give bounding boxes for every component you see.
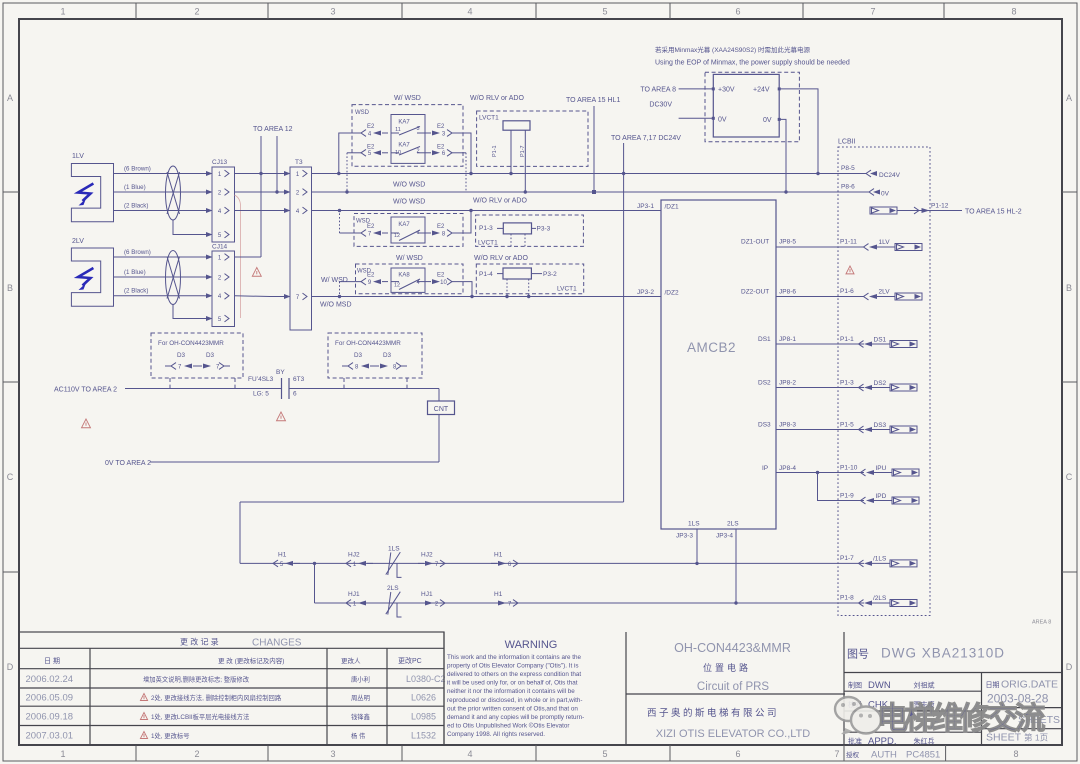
svg-text:P1-7: P1-7 [520,145,526,157]
svg-text:D3: D3 [354,352,363,359]
svg-text:P1-3: P1-3 [840,380,854,387]
svg-text:CJ14: CJ14 [212,244,228,251]
svg-text:P3-3: P3-3 [537,226,551,233]
IC AMCB2 box [661,200,776,529]
border zone ticks left [3,191,19,193]
relay group WSD (KA8) dashed box [356,264,464,294]
svg-text:5: 5 [602,7,607,17]
power supply dashed box [705,72,799,142]
svg-text:WARNING: WARNING [505,639,558,651]
sign rows lines [844,690,982,692]
lead P1-1 to row1 [510,130,512,173]
svg-text:P3-2: P3-2 [543,271,557,278]
leads LVCT1 bottom to row7 [506,279,508,297]
svg-text:DS1: DS1 [874,336,887,343]
svg-text:delivered to others on the exp: delivered to others on the express condi… [447,671,581,678]
svg-text:property of Otis Elevator Com: property of Otis Elevator Company ("Otis… [447,663,579,670]
svg-text:0V: 0V [718,117,727,124]
svg-text:D: D [7,662,14,672]
svg-text:刘祖斌: 刘祖斌 [914,681,935,690]
lead P1-7 to row2 [524,130,526,192]
svg-text:P8-5: P8-5 [841,165,855,172]
wire CNT to 0V return [438,415,440,463]
pin P1-12 output to HL-2 [870,207,897,214]
svg-text:6: 6 [293,391,297,398]
svg-text:DWN: DWN [868,680,891,691]
wire 1LV black [114,210,205,212]
svg-text:CHANGES: CHANGES [252,638,302,649]
svg-text:KA7: KA7 [398,143,410,149]
svg-text:0V: 0V [881,191,890,198]
svg-text:C: C [7,472,14,482]
svg-text:CNT: CNT [434,406,449,413]
svg-text:AREA 8: AREA 8 [1032,620,1051,626]
svg-text:Circuit of PRS: Circuit of PRS [697,681,770,693]
svg-text:TO AREA 15 HL-2: TO AREA 15 HL-2 [965,209,1022,216]
svg-text:P1-1: P1-1 [492,145,498,157]
svg-text:AC110V TO AREA 2: AC110V TO AREA 2 [54,387,117,394]
revision mark wire (pink) [235,195,241,318]
svg-text:IPU: IPU [876,465,887,472]
svg-text:PC4851: PC4851 [906,750,940,761]
svg-text:10: 10 [440,280,447,286]
svg-text:P1-5: P1-5 [840,422,854,429]
svg-text:For OH-CON4423MMR: For OH-CON4423MMR [158,340,224,347]
svg-text:L0985: L0985 [411,712,436,722]
svg-text:6: 6 [735,7,740,17]
svg-text:W/ WSD: W/ WSD [396,255,423,262]
svg-text:CJ13: CJ13 [212,159,228,166]
wire bus row1 DC24V [312,173,867,175]
power supply box [713,74,779,137]
border zone ticks top [135,3,137,19]
wire KA8 out to row7 [452,282,472,297]
lightning bolt 1LV [78,184,93,202]
twisted pair 1LV [166,166,181,220]
wire E2-6 stub to row2 [452,152,466,154]
svg-text:JP3-4: JP3-4 [716,533,733,540]
svg-text:BY: BY [276,369,285,376]
lightning bolt 2LV [78,268,93,286]
LVCT1 dashed box mid [476,215,584,246]
note box For OH-CON4423MMR right [328,333,422,378]
svg-text:0V: 0V [763,117,772,124]
svg-text:IPD: IPD [876,493,887,500]
relay KA8 contact box [391,268,425,292]
svg-text:2006.02.24: 2006.02.24 [26,674,74,685]
svg-text:+24V: +24V [753,87,770,94]
svg-text:L0626: L0626 [411,693,436,703]
svg-text:授权: 授权 [846,750,860,759]
watermark wechat logo [835,697,881,734]
svg-text:Using the EOP of Minmax, the p: Using the EOP of Minmax, the power suppl… [655,60,850,67]
svg-text:2LS: 2LS [727,521,739,528]
svg-text:DS2: DS2 [758,380,771,387]
wire CJ13-2 to T3-2 [235,191,284,193]
svg-text:(2 Black): (2 Black) [124,288,148,295]
jumper symbol D3 left [171,363,176,370]
svg-text:6: 6 [735,749,740,759]
wire IP branch to IPD [818,473,865,501]
svg-text:2: 2 [194,7,199,17]
wire to +30V [679,88,714,90]
svg-text:OH-CON4423&MMR: OH-CON4423&MMR [674,641,791,655]
svg-text:P1-9: P1-9 [840,493,854,500]
svg-text:P1-10: P1-10 [840,465,858,472]
svg-text:XIZI OTIS ELEVATOR CO.,LTD: XIZI OTIS ELEVATOR CO.,LTD [656,728,810,740]
svg-text:AUTH: AUTH [871,750,897,761]
svg-text:TO AREA 15 HL1: TO AREA 15 HL1 [566,97,620,104]
svg-text:KA7: KA7 [398,120,410,126]
svg-text:E2: E2 [437,145,445,151]
svg-text:4: 4 [467,749,472,759]
svg-text:DC24V: DC24V [879,172,901,179]
svg-text:JP3-3: JP3-3 [676,533,693,540]
svg-text:P1-1: P1-1 [840,336,854,343]
svg-text:reproduced or disclosed, in wh: reproduced or disclosed, in whole or in … [447,697,582,704]
relay KA7b contact box [391,217,425,243]
svg-text:JP8-2: JP8-2 [779,380,796,387]
changes table outline [19,632,444,745]
svg-text:周丛明: 周丛明 [351,693,370,702]
svg-text:日 期: 日 期 [44,657,60,665]
svg-text:E2: E2 [437,124,445,130]
svg-text:HJ1: HJ1 [348,591,360,598]
wire KA7 out to row1 [452,133,471,174]
svg-text:(1 Blue): (1 Blue) [124,269,146,276]
wire 2LV blue [114,276,205,278]
svg-text:12: 12 [394,283,400,289]
wire TO AREA 15 HL1 drop [593,106,595,192]
wire CJ13-4 to T3-4 [235,210,284,212]
wire +24V to row1 [779,89,818,174]
svg-text:W/O RLV or ADO: W/O RLV or ADO [470,95,524,102]
warning triangle left [82,419,91,428]
twisted pair 2LV [166,251,181,305]
svg-text:7: 7 [834,749,839,759]
wire E2-5 stub to row2 [347,152,361,154]
svg-text:ed to Otis Unpublished: ed to Otis Unpublished Work ©Otis Elevat… [447,721,569,729]
warning box [443,632,445,745]
warning triangle mid [277,412,286,421]
svg-text:(6 Brown): (6 Brown) [124,166,151,173]
title block divider [626,693,845,695]
svg-text:8: 8 [1011,7,1016,17]
wire TO AREA 12 riser 2 [276,136,278,192]
wire KA7b out to row4 [452,211,471,234]
svg-text:AMCB2: AMCB2 [687,340,736,355]
svg-text:/DZ1: /DZ1 [665,204,679,211]
svg-text:2006.05.09: 2006.05.09 [26,693,74,704]
svg-text:1: 1 [60,749,65,759]
changes table column lines [89,648,91,745]
svg-text:(1 Blue): (1 Blue) [124,184,146,191]
warning triangle LCBII [846,266,854,274]
svg-text:neither it nor the informatio: neither it nor the information it contai… [447,688,575,695]
svg-text:KA7: KA7 [398,222,410,228]
svg-text:更 改 记 录: 更 改 记 录 [180,637,219,647]
wire 0V right to row2 [779,119,786,192]
svg-text:P1-11: P1-11 [840,239,857,246]
svg-text:HJ2: HJ2 [348,552,360,559]
svg-text:DC30V: DC30V [649,102,672,109]
svg-text:P8-6: P8-6 [841,184,855,191]
svg-text:(2 Black): (2 Black) [124,203,148,210]
wire CJ14-4 to T3-7 [235,295,284,298]
svg-text:JP8-6: JP8-6 [779,289,796,296]
wire drop to CNT [438,389,440,402]
svg-text:(6 Brown): (6 Brown) [124,249,151,256]
border zone ticks bottom [135,745,137,761]
wire rung2 /2LS [315,602,865,604]
wire E2-7 stub to row4 [340,232,362,234]
svg-text:L0380-C2: L0380-C2 [406,674,446,684]
relay group WSD (KA7 12-4) dashed box [354,214,463,247]
svg-text:P1-4: P1-4 [479,271,493,278]
svg-text:唐小利: 唐小利 [351,675,370,684]
svg-text:TO AREA 12: TO AREA 12 [253,126,293,133]
note box For OH-CON4423MMR left [151,333,243,378]
wire JP3-4 drop [735,529,737,603]
svg-text:朱红兵: 朱红兵 [914,737,935,746]
wire CJ14-1 to TO AREA 12 riser [235,256,262,258]
fuse terminal FU 4SL3 / 6T3 [281,378,283,399]
svg-text:若采用Minmax光幕 (XAA24S90S2) 时需加此光: 若采用Minmax光幕 (XAA24S90S2) 时需加此光幕电源 [655,45,810,54]
svg-text:JP8-4: JP8-4 [779,465,796,472]
svg-text:LVCT1: LVCT1 [479,115,499,122]
svg-text:3: 3 [330,7,335,17]
svg-text:位置电路: 位置电路 [703,662,751,673]
relay KA7 contact box [391,115,425,164]
svg-text:E2: E2 [437,273,445,279]
svg-text:DWG XBA21310D: DWG XBA21310D [881,646,1005,661]
svg-text:TO AREA 8: TO AREA 8 [640,87,676,94]
svg-text:A: A [1066,93,1072,103]
svg-text:LG: 5: LG: 5 [253,391,269,398]
svg-text:2LS: 2LS [387,585,399,592]
svg-text:8: 8 [1013,749,1018,759]
wire bus row2 0V [312,191,870,193]
LVCT1 dashed box bottom [476,264,583,294]
svg-text:DS2: DS2 [874,380,887,387]
svg-text:1LV: 1LV [72,153,84,160]
wire 0V return [150,461,439,463]
svg-text:C: C [1066,472,1073,482]
wire rung branch [314,563,316,603]
svg-text:LVCT1: LVCT1 [478,240,498,247]
svg-text:图号: 图号 [847,648,869,661]
svg-text:DS3: DS3 [874,422,887,429]
resistor LVCT1 mid [503,223,531,234]
svg-text:W/O WSD: W/O WSD [393,199,425,206]
svg-text:H1: H1 [494,591,503,598]
svg-text:W/O WSD: W/O WSD [393,182,425,189]
wire JP3-3 drop [696,529,698,563]
resistor LVCT1 top [503,121,530,130]
svg-text:P1-12: P1-12 [931,203,949,210]
wire 2LV black [114,295,205,297]
svg-text:IP: IP [762,465,768,472]
wire 1LV brown [114,173,205,175]
svg-text:D3: D3 [206,352,215,359]
svg-text:更改PC: 更改PC [398,656,422,665]
svg-text:LCBII: LCBII [838,139,856,146]
LVCT1 dashed box top [477,111,588,166]
svg-text:2: 2 [194,749,199,759]
wire to 0V left [679,117,714,119]
svg-text:7: 7 [870,7,875,17]
svg-text:H1: H1 [494,552,503,559]
svg-text:W/O MSD: W/O MSD [320,302,352,309]
svg-text:H1: H1 [278,552,287,559]
svg-text:KA8: KA8 [398,273,410,279]
svg-text:杨 伟: 杨 伟 [351,731,365,740]
svg-text:2: 2 [416,149,419,155]
svg-text:1LV: 1LV [879,239,891,246]
svg-text:P1-8: P1-8 [840,595,854,602]
wire rung1 /1LS [240,562,864,564]
svg-text:DS1: DS1 [758,336,771,343]
wire CJ13-1 to T3-1 [235,173,284,175]
svg-text:LVCT1: LVCT1 [557,286,577,293]
svg-text:2007.03.01: 2007.03.01 [26,731,74,742]
dashed drops right box [343,378,345,389]
svg-text:2LV: 2LV [72,238,84,245]
svg-text:D3: D3 [177,352,186,359]
svg-text:西子奥的斯电梯有限公司: 西子奥的斯电梯有限公司 [647,707,779,719]
svg-text:日期: 日期 [986,681,1000,689]
svg-text:L1532: L1532 [411,731,436,741]
svg-text:更 改 (更改标记及内容): 更 改 (更改标记及内容) [218,656,284,665]
svg-text:JP3-1: JP3-1 [637,203,654,210]
wire feeder horizontal y502 [240,501,624,503]
svg-text:P1-6: P1-6 [840,288,854,295]
svg-text:2006.09.18: 2006.09.18 [26,712,74,723]
shield wire 1LV to CJ13-5 [173,220,204,235]
svg-text:W/ WSD: W/ WSD [321,277,348,284]
svg-text:D3: D3 [383,352,392,359]
svg-text:6T3: 6T3 [293,376,305,383]
svg-text:0V TO AREA 2: 0V TO AREA 2 [105,460,151,467]
svg-text:5: 5 [602,749,607,759]
svg-text:3: 3 [330,749,335,759]
svg-text:demand it and any copies will: demand it and any copies will be promptl… [447,714,584,721]
svg-text:WSD: WSD [355,110,370,116]
svg-text:P1-7: P1-7 [840,555,854,562]
svg-text:增加英文说明,删除更改标志; 整版修改: 增加英文说明,删除更改标志; 整版修改 [143,675,250,684]
svg-text:JP8-1: JP8-1 [779,336,796,343]
svg-text:4: 4 [467,7,472,17]
svg-text:/DZ2: /DZ2 [665,290,679,297]
resistor LVCT1 bottom [503,268,531,279]
svg-text:ORIG.DATE: ORIG.DATE [1001,679,1058,691]
svg-text:TO AREA 7,17 DC24V: TO AREA 7,17 DC24V [611,135,681,142]
svg-text:/2LS: /2LS [873,595,887,602]
svg-text:电梯维修交流: 电梯维修交流 [877,701,1045,736]
svg-text:W/O RLV or ADO: W/O RLV or ADO [473,198,527,205]
svg-text:+30V: +30V [718,87,735,94]
wire E2-9 stub to row7 [340,281,362,283]
svg-text:DZ1-OUT: DZ1-OUT [741,239,769,246]
svg-text:制图: 制图 [848,681,862,690]
changes table header row line [19,647,444,649]
wire TO AREA 12 riser 1 [260,136,262,257]
svg-text:it will be used only for, or o: it will be used only for, or on behalf o… [447,680,578,687]
svg-text:/1LS: /1LS [873,555,887,562]
svg-text:Company 1998. All rights rese: Company 1998. All rights reserved. [447,731,545,738]
svg-text:JP8-5: JP8-5 [779,239,796,246]
wire bus row4 to /DZ1 [312,210,662,212]
svg-text:HJ2: HJ2 [421,552,433,559]
svg-text:11: 11 [395,127,401,133]
svg-text:W/ WSD: W/ WSD [394,95,421,102]
svg-text:1处, 更改LCBII板平层光电接线方法: 1处, 更改LCBII板平层光电接线方法 [151,712,249,721]
wire 1LV blue [114,191,205,193]
wire 2LV brown [114,256,205,258]
svg-text:E2: E2 [367,124,375,130]
changes table row lines [19,687,444,689]
svg-text:APPD.: APPD. [868,736,897,747]
svg-text:1LS: 1LS [388,546,400,553]
dashed drops left box [169,378,171,389]
svg-text:更改人: 更改人 [341,656,361,665]
wire bus row7 to /DZ2 [312,296,662,298]
svg-text:D: D [1066,662,1073,672]
wire DC24V feeder drop [623,143,625,502]
svg-text:T3: T3 [295,159,303,166]
svg-text:JP8-3: JP8-3 [779,422,796,429]
svg-text:E2: E2 [367,145,375,151]
svg-text:1: 1 [60,7,65,17]
svg-text:E2: E2 [437,224,445,230]
shield wire 2LV to CJ14-5 [173,305,204,319]
svg-text:out the prior written consent: out the prior written consent of Otis,an… [447,705,578,712]
device CNT box [428,401,455,415]
svg-text:HJ1: HJ1 [421,591,433,598]
svg-text:钱锋鑫: 钱锋鑫 [351,712,370,721]
svg-text:2LV: 2LV [879,288,891,295]
svg-text:A: A [7,93,13,103]
leads LVCT1 mid [510,234,512,247]
svg-text:批准: 批准 [848,737,862,746]
jumper symbol D3 right [348,363,353,370]
svg-text:E2: E2 [367,273,375,279]
svg-text:DZ2-OUT: DZ2-OUT [741,289,769,296]
drawing number block [843,632,845,745]
svg-text:P1-3: P1-3 [479,225,493,232]
svg-text:1LS: 1LS [688,521,700,528]
wire E2-4 stub to row1 [339,133,361,174]
warning triangle near CJ14 [252,268,261,277]
svg-text:B: B [7,283,13,293]
wire AC110V [125,388,282,390]
svg-text:2处, 更改接线方法, 删除控制柜内风扇控制回路: 2处, 更改接线方法, 删除控制柜内风扇控制回路 [151,693,282,702]
svg-text:B: B [1066,283,1072,293]
wire AC110V cont [289,388,439,390]
svg-text:This work and the information: This work and the information it contain… [447,654,582,661]
svg-text:1处, 更改标号: 1处, 更改标号 [151,731,190,740]
svg-text:DS3: DS3 [758,422,771,429]
svg-text:E2: E2 [367,224,375,230]
svg-text:12: 12 [394,233,400,239]
svg-text:FU’4SL3: FU’4SL3 [248,376,274,383]
svg-text:JP3-2: JP3-2 [637,289,654,296]
border zone ticks right [1062,191,1077,193]
svg-text:For OH-CON4423MMR: For OH-CON4423MMR [335,340,401,347]
svg-text:W/O RLV or ADO: W/O RLV or ADO [474,255,528,262]
wire feeder drop to rung1 [239,502,241,563]
